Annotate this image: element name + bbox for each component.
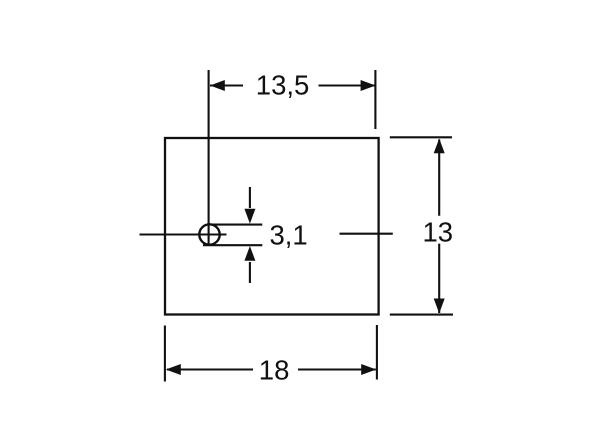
slot bottom edge	[203, 244, 262, 246]
dimension line 18 left segment	[167, 368, 253, 370]
extension line bottom-left (18)	[164, 326, 166, 382]
dimension line 13 lower segment	[438, 244, 440, 313]
extension line from hole center (13,5 left)	[208, 70, 210, 246]
svg-text:13,5: 13,5	[256, 69, 310, 100]
arrowhead 3,1 up	[244, 246, 255, 261]
arrow tail 3,1 top	[249, 187, 251, 208]
dimension line 13 upper segment	[438, 140, 440, 216]
dimension line 18 right segment	[298, 368, 376, 370]
arrowhead 13,5 right	[361, 80, 376, 91]
centerline stub at right edge	[340, 233, 393, 235]
dimension line 13,5 right segment	[319, 84, 375, 86]
arrowhead 18 right	[361, 364, 376, 375]
arrowhead 13 up	[434, 139, 445, 154]
slot top edge	[211, 224, 262, 226]
svg-text:18: 18	[259, 354, 290, 385]
extension line bottom-right (18)	[376, 325, 378, 380]
svg-text:3,1: 3,1	[270, 219, 308, 250]
extension line bottom (13)	[390, 314, 453, 316]
arrow tail 3,1 bottom	[249, 262, 251, 283]
arrowhead 13 down	[434, 299, 445, 314]
arrowhead 13,5 left	[210, 80, 225, 91]
part outline rectangle	[165, 138, 379, 315]
mounting hole	[199, 224, 219, 244]
svg-text:13: 13	[423, 216, 454, 247]
arrowhead 18 left	[166, 364, 181, 375]
dimension line 13,5 left segment	[210, 84, 243, 86]
arrowhead 3,1 down	[244, 209, 255, 224]
hole centerline horizontal	[140, 233, 227, 235]
extension line top (13)	[390, 136, 452, 138]
extension line right (13,5)	[374, 70, 376, 129]
